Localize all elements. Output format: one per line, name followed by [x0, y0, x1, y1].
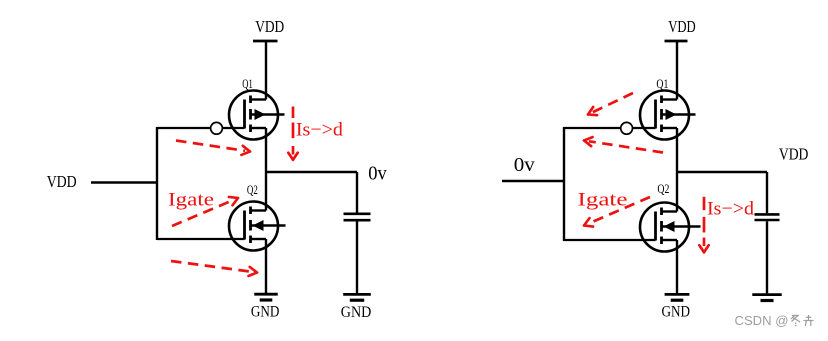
svg-text:VDD: VDD [668, 17, 696, 36]
svg-text:VDD: VDD [779, 145, 809, 164]
svg-text:Q2: Q2 [247, 183, 258, 197]
svg-text:Q1: Q1 [242, 77, 253, 91]
svg-text:GND: GND [662, 304, 691, 321]
svg-text:CSDN @: CSDN @ [735, 314, 789, 328]
svg-text:0v: 0v [368, 162, 387, 184]
svg-text:VDD: VDD [255, 17, 284, 36]
svg-text:Is−>d: Is−>d [707, 199, 755, 220]
svg-text:0v: 0v [514, 154, 535, 176]
svg-text:GND: GND [341, 304, 372, 321]
svg-text:Igate: Igate [578, 190, 628, 211]
svg-text:VDD: VDD [47, 172, 77, 191]
svg-text:Igate: Igate [168, 190, 214, 211]
svg-text:GND: GND [251, 303, 280, 320]
svg-text:Is−>d: Is−>d [296, 120, 344, 141]
svg-text:Q1: Q1 [656, 76, 668, 91]
svg-text:Q2: Q2 [657, 181, 669, 196]
